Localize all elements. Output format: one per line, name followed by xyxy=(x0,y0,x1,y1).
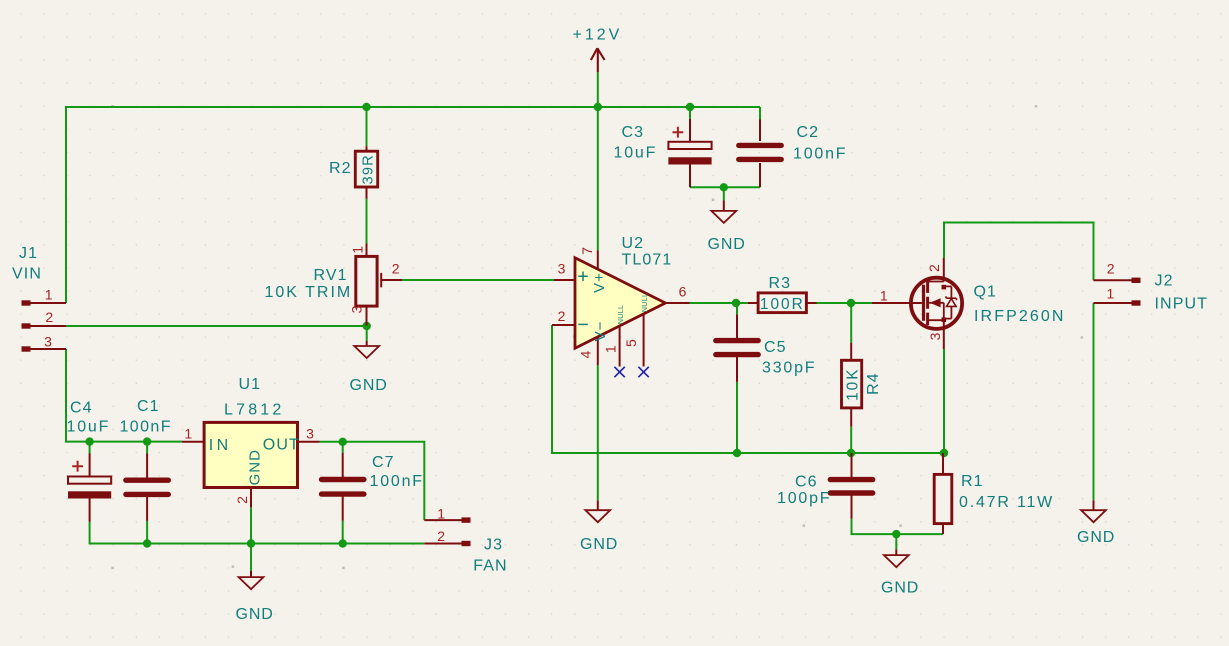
resistor R4 pins xyxy=(850,343,852,427)
svg-text:C1: C1 xyxy=(137,398,160,415)
junction (147.1,543.5) xyxy=(143,539,151,547)
U2 plus input mark xyxy=(578,272,588,282)
svg-text:V+: V+ xyxy=(591,272,608,293)
svg-text:RV1: RV1 xyxy=(314,267,348,284)
U1 pin 3 stub xyxy=(298,441,320,443)
capacitor C7 xyxy=(322,480,364,495)
junction (690,107) xyxy=(686,103,694,111)
svg-text:3: 3 xyxy=(348,305,364,313)
svg-text:100nF: 100nF xyxy=(370,473,424,490)
capacitor C5 leads xyxy=(736,314,738,382)
svg-text:1: 1 xyxy=(1107,285,1115,301)
svg-text:7: 7 xyxy=(579,247,595,255)
svg-text:GND: GND xyxy=(881,579,919,596)
gnd stub red C6/R1 xyxy=(895,549,897,555)
ground symbol below C6/R1 xyxy=(884,555,909,567)
wire +12V stem xyxy=(597,72,599,250)
wire C5 top xyxy=(736,303,738,314)
wire R3 to Q1 gate xyxy=(817,302,873,304)
RV1 pin stubs 1,3 xyxy=(366,244,368,326)
svg-text:NULL: NULL xyxy=(616,305,625,325)
svg-text:FAN: FAN xyxy=(473,558,507,575)
svg-text:J3: J3 xyxy=(484,536,503,553)
connector J2 pin 2 xyxy=(1094,279,1132,281)
svg-text:3: 3 xyxy=(927,332,943,340)
wire R2 top xyxy=(366,107,368,146)
resistor R3 pins xyxy=(748,302,817,304)
wire U1 out to C7 and J3.1 xyxy=(320,442,425,520)
capacitor C3 (polarized) xyxy=(668,142,711,149)
svg-text:GND: GND xyxy=(246,449,263,485)
potentiometer RV1 body xyxy=(356,256,377,306)
capacitor C4 leads xyxy=(89,454,91,522)
junction (944,453) xyxy=(940,449,948,457)
ground symbol below U2 xyxy=(585,510,610,522)
junction (366.5,107) xyxy=(362,103,370,111)
junction (251,543.5) xyxy=(247,539,255,547)
svg-text:10uF: 10uF xyxy=(67,419,111,436)
gnd stub red J2 xyxy=(1093,500,1095,510)
U2 pin 4 stub xyxy=(597,337,599,365)
svg-text:GND: GND xyxy=(1077,529,1115,546)
svg-text:2: 2 xyxy=(926,264,942,272)
Q1 drain pin xyxy=(943,258,945,282)
capacitor C1 leads xyxy=(146,454,148,521)
wire C3 top xyxy=(689,107,691,119)
svg-text:OUT: OUT xyxy=(263,436,300,453)
junction (89.6,441.6) xyxy=(85,437,93,445)
junction (366.7,326) xyxy=(363,322,371,330)
svg-text:3: 3 xyxy=(44,333,52,349)
svg-text:10K TRIM: 10K TRIM xyxy=(265,284,353,301)
gnd stub red U1 xyxy=(250,571,252,577)
U2 pin 2 stub xyxy=(552,324,575,326)
svg-text:J2: J2 xyxy=(1155,272,1174,289)
wire C7 leads green xyxy=(342,442,344,544)
resistor R3 body xyxy=(758,293,806,313)
U2 pin 7 stub xyxy=(597,251,599,270)
svg-text:R3: R3 xyxy=(769,275,792,292)
svg-text:R1: R1 xyxy=(961,473,984,490)
ground symbol below RV1 xyxy=(354,346,379,358)
Q1 internals xyxy=(922,285,925,321)
wire C1 leads green xyxy=(146,442,148,544)
junction (342.7,543.5) xyxy=(339,539,347,547)
svg-text:GND: GND xyxy=(236,606,274,623)
svg-text:4: 4 xyxy=(578,350,594,358)
connector J1 pin 3 xyxy=(31,348,67,350)
gnd stub red U2 pin4 xyxy=(597,500,599,510)
svg-text:6: 6 xyxy=(679,284,687,300)
transistor Q1 body circle xyxy=(911,278,962,329)
wire gnd stub below C3/C2 xyxy=(723,187,725,200)
resistor R4 body xyxy=(842,360,862,408)
svg-text:2: 2 xyxy=(437,528,445,544)
svg-text:C4: C4 xyxy=(70,399,93,416)
svg-text:J1: J1 xyxy=(19,245,38,262)
svg-text:C5: C5 xyxy=(764,339,787,356)
wire C6 bottom to R1 bottom xyxy=(852,519,944,534)
svg-text:U2: U2 xyxy=(622,235,645,252)
junction (737,453) xyxy=(733,449,741,457)
svg-text:3: 3 xyxy=(558,260,566,276)
svg-text:5: 5 xyxy=(623,339,639,347)
svg-text:+12V: +12V xyxy=(573,27,623,44)
svg-text:100R: 100R xyxy=(760,296,805,313)
connector J1 pin 2 xyxy=(31,325,67,327)
no-connect X on pin 5 xyxy=(638,367,648,377)
svg-text:TL071: TL071 xyxy=(622,252,673,269)
capacitor C1 xyxy=(126,480,168,494)
resistor R2 body xyxy=(355,151,377,187)
Q1 body diode xyxy=(944,286,952,318)
wire C3-C2 bottom link xyxy=(690,186,760,188)
svg-text:10K: 10K xyxy=(844,368,861,401)
capacitor C4 (polarized) xyxy=(68,477,111,484)
svg-text:1: 1 xyxy=(349,246,365,254)
svg-text:2: 2 xyxy=(234,496,250,504)
junction (851,303) xyxy=(847,299,855,307)
junction (851,453) xyxy=(847,449,855,457)
wire C4 top green xyxy=(89,442,91,454)
capacitor C5 xyxy=(716,341,758,355)
junction (342.7,441.8) xyxy=(339,438,347,446)
wire bottom ground rail xyxy=(90,522,425,544)
svg-text:INPUT: INPUT xyxy=(1155,296,1209,313)
wire C5 bottom xyxy=(736,382,738,453)
resistor R1 pins xyxy=(942,453,944,534)
wire J1.1 to top rail xyxy=(66,107,760,303)
svg-text:0.47R 11W: 0.47R 11W xyxy=(959,494,1054,511)
capacitor C6 leads xyxy=(851,453,853,519)
gnd stub red below C2/C3 xyxy=(723,201,725,211)
junction (597.8,107) xyxy=(594,103,602,111)
svg-text:3: 3 xyxy=(306,426,314,442)
svg-text:2: 2 xyxy=(392,260,400,276)
svg-text:100nF: 100nF xyxy=(120,419,172,436)
power symbol +12V xyxy=(591,48,605,72)
wire U2 pin2 feedback xyxy=(552,325,944,453)
svg-text:IN: IN xyxy=(209,437,232,454)
C4 plus mark xyxy=(72,461,83,472)
wire gnd stub C6/R1 xyxy=(895,534,897,549)
svg-text:1: 1 xyxy=(437,506,445,522)
RV1 wiper pin 2 xyxy=(381,273,402,288)
wire U2 pin4 to gnd xyxy=(597,365,599,500)
capacitor C6 xyxy=(830,480,872,493)
Q1 source pin xyxy=(943,320,945,349)
svg-text:2: 2 xyxy=(45,309,53,325)
ground symbol below J2 xyxy=(1081,510,1106,522)
RV1 gnd stub red xyxy=(366,341,368,346)
svg-text:GND: GND xyxy=(350,377,388,394)
resistor R1 body xyxy=(934,474,952,523)
wire R4 bottom xyxy=(850,427,852,453)
svg-text:10uF: 10uF xyxy=(614,144,658,161)
svg-text:IRFP260N: IRFP260N xyxy=(974,308,1066,325)
wire U2 out to R3 xyxy=(690,302,748,304)
ground symbol below U1 xyxy=(239,577,264,589)
wire R4 top xyxy=(850,303,852,343)
C3 plus mark xyxy=(673,127,684,138)
U2 pin 3 stub xyxy=(554,279,575,281)
svg-text:GND: GND xyxy=(708,236,746,253)
junction (147.1,441.6) xyxy=(143,437,151,445)
svg-text:39R: 39R xyxy=(361,154,377,184)
svg-text:100nF: 100nF xyxy=(793,145,847,162)
svg-text:NULL: NULL xyxy=(640,293,649,313)
regulator U1 body xyxy=(204,422,297,487)
capacitor C3 leads xyxy=(689,119,691,188)
wire U1 pin2 down xyxy=(250,507,252,543)
capacitor C7 leads xyxy=(342,453,344,521)
svg-text:VIN: VIN xyxy=(12,266,42,283)
capacitor C2 leads xyxy=(759,120,761,188)
junction (736,303) xyxy=(732,299,740,307)
no-connect X on pin 1 xyxy=(614,367,624,377)
svg-text:1: 1 xyxy=(45,287,53,303)
svg-text:330pF: 330pF xyxy=(762,360,816,377)
svg-text:L7812: L7812 xyxy=(224,401,285,418)
svg-text:R4: R4 xyxy=(865,372,882,395)
U1 pin 2 stub xyxy=(250,488,252,508)
svg-text:C6: C6 xyxy=(795,474,818,491)
U2 pin 5 stub xyxy=(643,314,645,367)
svg-text:1: 1 xyxy=(880,288,888,304)
wire J2.1 to gnd xyxy=(1093,303,1095,500)
svg-text:V−: V− xyxy=(592,321,609,342)
connector J3 pin 1 xyxy=(424,519,461,521)
U2 pin 1 stub xyxy=(619,326,621,367)
wire Q1 drain to J2.2 xyxy=(944,223,1094,281)
wire J1.3 to U1 input rail xyxy=(66,349,182,442)
Q1 gate pin xyxy=(872,302,922,304)
U2 pin 6 stub xyxy=(665,302,689,304)
op-amp U2 body xyxy=(575,258,665,348)
connector J3 pin 2 xyxy=(424,543,461,545)
svg-text:R2: R2 xyxy=(329,160,352,177)
svg-text:1: 1 xyxy=(184,426,192,442)
U1 pin 1 stub xyxy=(182,441,204,443)
svg-text:Q1: Q1 xyxy=(974,284,998,301)
ground symbol below C2/C3 xyxy=(711,211,736,223)
wire R2 to RV1 xyxy=(366,199,368,244)
wire RV1 gnd stub xyxy=(366,326,368,341)
svg-text:1: 1 xyxy=(602,345,618,353)
svg-text:U1: U1 xyxy=(239,376,262,393)
connector J2 pin 1 xyxy=(1094,302,1132,304)
connector J1 pin 1 xyxy=(31,302,67,304)
svg-text:C7: C7 xyxy=(372,454,395,471)
R2 pin stubs xyxy=(366,146,368,198)
svg-text:2: 2 xyxy=(558,308,566,324)
wire U1 gnd stub xyxy=(250,544,252,572)
svg-text:2: 2 xyxy=(1107,260,1115,276)
svg-text:100pF: 100pF xyxy=(777,490,831,507)
svg-text:GND: GND xyxy=(580,536,618,553)
junction (896.3,534.1) xyxy=(892,530,900,538)
wire RV1 wiper to U2 pin3 xyxy=(402,279,554,281)
wire J1.2 to RV1.3 xyxy=(66,325,367,327)
junction (723.8,187.3) xyxy=(720,183,728,191)
svg-text:C3: C3 xyxy=(622,124,645,141)
svg-text:C2: C2 xyxy=(797,124,820,141)
capacitor C2 xyxy=(739,145,781,159)
U2 minus input mark xyxy=(578,323,588,325)
wire C2 top xyxy=(759,107,761,120)
